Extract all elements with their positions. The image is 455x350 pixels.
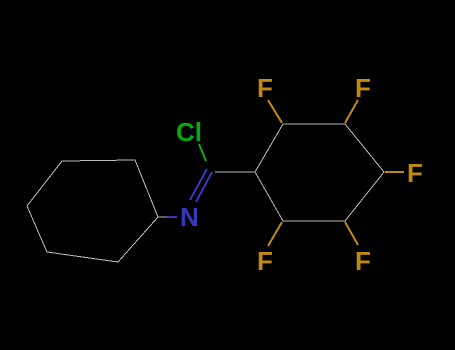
wire: ring to F right (385, 171, 404, 173)
wire: ring to F bottom-left (268, 222, 282, 246)
wire: C to Cl bond (199, 144, 206, 161)
wire: ring to F bottom-right (345, 222, 358, 245)
wire: ring to F top-right (345, 100, 358, 123)
wire: ring to F top-left (268, 100, 282, 123)
wire: N to phenyl ring (white half) (158, 216, 168, 218)
svg-text:F: F (257, 246, 273, 276)
svg-text:F: F (257, 73, 273, 103)
phenyl ring (left, on N) (27, 160, 158, 262)
wire: N to phenyl ring (blue half) (167, 216, 177, 218)
svg-text:Cl: Cl (176, 117, 202, 147)
pentafluorophenyl ring (right) (255, 124, 384, 221)
svg-text:F: F (355, 73, 371, 103)
wire: C to pentafluorophenyl ring (215, 171, 255, 173)
svg-text:F: F (407, 158, 423, 188)
svg-text:N: N (180, 202, 199, 232)
svg-text:F: F (355, 246, 371, 276)
wire: C=N double bond (190, 169, 212, 202)
